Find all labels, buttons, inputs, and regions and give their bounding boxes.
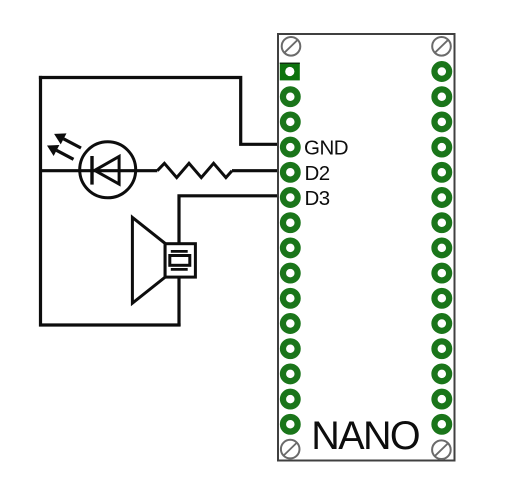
svg-text:D2: D2	[305, 162, 330, 185]
pin 1 square pad (left col, top)	[280, 63, 300, 81]
wire: speaker bottom lead	[177, 270, 180, 326]
wire: resistor to D2 pin	[232, 169, 279, 172]
LED D1: light arrow 2	[48, 145, 74, 159]
Arduino Nano U1: board outline	[278, 34, 455, 461]
speaker LS1: piezo element	[170, 256, 190, 266]
mounting hole bottom-right	[432, 440, 451, 459]
mounting hole top-right	[432, 37, 451, 56]
wire: GND net top loop (left rail to GND pin)	[41, 78, 280, 145]
svg-text:GND: GND	[304, 136, 348, 159]
svg-text:NANO: NANO	[311, 414, 419, 458]
LED D1: light arrow 1	[55, 134, 81, 148]
wire: left vertical rail	[41, 78, 180, 326]
mounting hole top-left	[282, 37, 301, 56]
speaker LS1: top plate	[171, 250, 188, 253]
speaker LS1: cone	[132, 217, 165, 303]
svg-text:D3: D3	[305, 187, 330, 210]
left pin column pads 2-15	[283, 89, 298, 431]
mounting hole bottom-left	[281, 440, 300, 459]
right pin column pads 1-15	[434, 64, 449, 432]
wire: D3 line to speaker	[179, 196, 279, 250]
wire: LED / resistor line to D2	[41, 169, 158, 172]
LED D1: cathode bar	[90, 156, 93, 185]
resistor R1	[157, 163, 232, 177]
speaker LS1: bottom plate	[171, 268, 188, 271]
LED D1: diode triangle	[95, 157, 119, 185]
speaker LS1: driver box	[165, 244, 195, 277]
LED D1: body circle	[80, 142, 136, 198]
